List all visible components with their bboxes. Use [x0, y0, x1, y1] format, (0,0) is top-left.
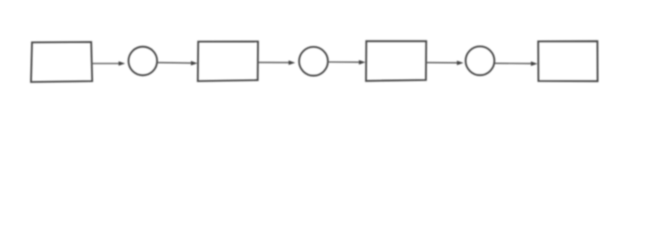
- block 3 (rectangle): [366, 41, 426, 81]
- block 2 (rectangle): [198, 42, 258, 82]
- block 4 (rectangle): [538, 41, 597, 81]
- wire arrow 6 (node 3 to block 4): [495, 61, 538, 66]
- wire arrow 4 (node 2 to block 3): [328, 60, 366, 65]
- wire arrow 2 (node 1 to block 2): [157, 61, 197, 66]
- node 2 (circle): [299, 47, 328, 76]
- block 1 (rectangle): [31, 42, 92, 82]
- wire arrow 5 (block 3 to node 3): [426, 61, 464, 66]
- node 1 (circle): [129, 47, 158, 76]
- wire arrow 1 (block 1 to node 1): [92, 61, 126, 66]
- wire arrow 3 (block 2 to node 2): [258, 60, 295, 65]
- node 3 (circle): [466, 46, 495, 75]
